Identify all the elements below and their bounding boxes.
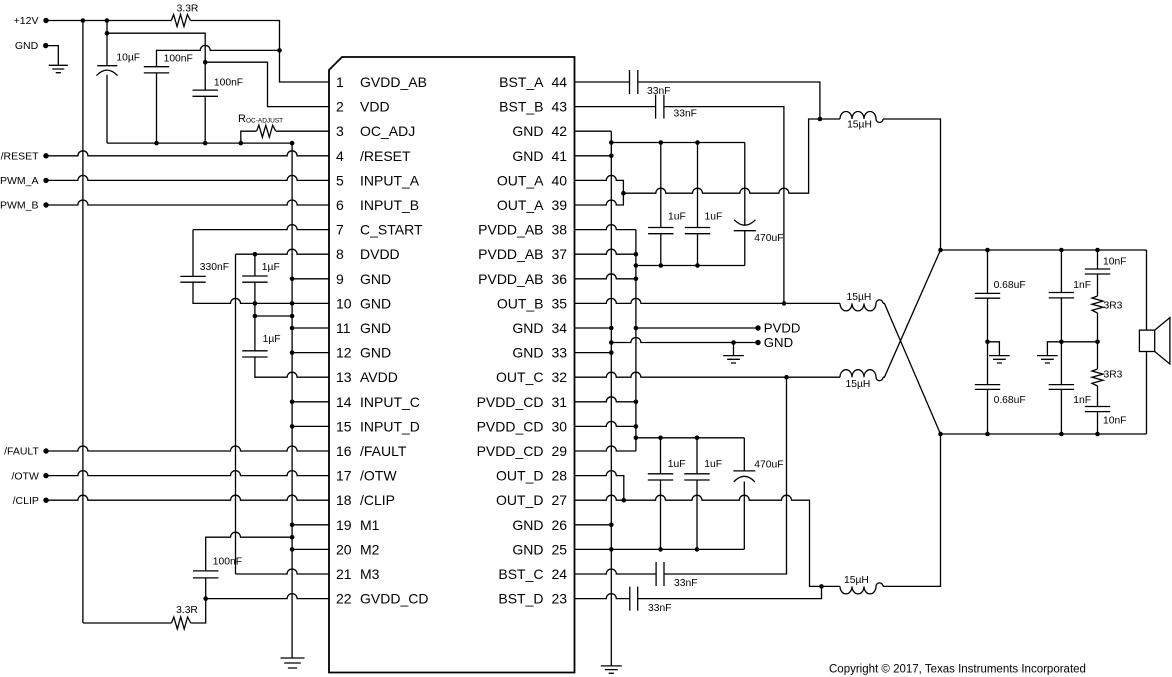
svg-text:ROC-ADJUST: ROC-ADJUST (238, 113, 283, 125)
svg-text:17: 17 (336, 468, 352, 484)
svg-text:2: 2 (336, 99, 344, 115)
resistor R3 3.3R (172, 617, 191, 629)
wire pin 14 INPUT_C (292, 401, 329, 403)
svg-text:34: 34 (552, 320, 568, 336)
wire +12V to R1 and filter caps (46, 20, 171, 22)
wire pin 12 GND (292, 352, 329, 354)
resistor R2 R_OC-ADJUST (241, 131, 257, 143)
ground symbol at C18/C19 mid (988, 342, 1000, 356)
wire pin 42 GND to bus (575, 130, 612, 132)
svg-text:PWM_A: PWM_A (0, 175, 39, 187)
svg-text:22: 22 (336, 591, 352, 607)
wire C6 bottom to pin 13 AVDD (255, 357, 329, 377)
inductor L1 15uH (OUT_A) (820, 118, 840, 120)
wire C5 bottom lead (254, 282, 256, 303)
wire C7 top tie to bus (206, 532, 292, 571)
wire R3 to GVDD_CD node (191, 599, 206, 623)
capacitor C14 1uF (684, 474, 709, 480)
node PVDD terminal (636, 327, 758, 329)
capacitor C8 33nF (BST_A) (630, 70, 638, 94)
svg-text:40: 40 (552, 172, 568, 188)
svg-text:PVDD_CD: PVDD_CD (477, 418, 544, 434)
wire C4 top lead (192, 230, 194, 277)
svg-text:470uF: 470uF (754, 233, 783, 244)
svg-text:35: 35 (552, 295, 568, 311)
svg-text:3R3: 3R3 (1104, 370, 1123, 381)
wire right GND bus (610, 131, 612, 666)
wire pin 21 M3 (236, 569, 330, 574)
svg-text:OUT_C: OUT_C (496, 369, 543, 385)
ground symbol at right bus (601, 666, 622, 673)
svg-text:1nF: 1nF (1073, 280, 1091, 291)
capacitor C18 0.68uF (987, 250, 989, 293)
wire left GND bus (291, 143, 293, 658)
svg-text:PVDD_CD: PVDD_CD (477, 443, 544, 459)
wire C5 top lead (254, 254, 256, 276)
svg-text:13: 13 (336, 369, 352, 385)
svg-text:21: 21 (336, 566, 352, 582)
wire zobel mid link (1061, 341, 1097, 343)
svg-text:9: 9 (336, 271, 344, 287)
ground symbol at left bus (281, 658, 305, 668)
inductor L4 15uH (OUT_D) (822, 585, 841, 587)
svg-text:GND: GND (512, 320, 543, 336)
svg-text:1: 1 (336, 74, 344, 90)
wire pin 43 BST_B to C9 (575, 106, 656, 108)
wire C3 bottom lead (204, 97, 206, 143)
svg-text:10nF: 10nF (1103, 415, 1126, 426)
svg-text:23: 23 (552, 591, 568, 607)
svg-text:29: 29 (552, 443, 568, 459)
wire R3 loop from +12V rail (83, 622, 172, 624)
svg-text:10nF: 10nF (1103, 256, 1126, 267)
svg-text:3: 3 (336, 123, 344, 139)
wire pin 40 OUT_A (575, 175, 624, 193)
wire pin 25 GND rail y549 (575, 548, 745, 550)
svg-text:PVDD_CD: PVDD_CD (477, 394, 544, 410)
svg-text:VDD: VDD (360, 99, 390, 115)
svg-text:32: 32 (552, 369, 568, 385)
svg-text:/CLIP: /CLIP (13, 495, 39, 507)
inductor L2 15uH (OUT_B) (784, 302, 840, 304)
svg-text:/OTW: /OTW (360, 468, 397, 484)
svg-text:3.3R: 3.3R (176, 605, 198, 616)
wire C5/C6 mid tie to bus (254, 303, 256, 350)
node PWM_B terminal (43, 202, 48, 207)
svg-text:GND: GND (512, 148, 543, 164)
svg-text:10µF: 10µF (116, 52, 140, 63)
svg-text:14: 14 (336, 394, 352, 410)
svg-text:15µH: 15µH (845, 379, 870, 390)
wire right PVDD bus (635, 230, 637, 451)
wire /OTW to pin 17 (46, 471, 329, 476)
svg-text:BST_A: BST_A (499, 74, 544, 90)
svg-text:100nF: 100nF (213, 557, 242, 568)
wire pin 34 GND (575, 327, 612, 329)
svg-text:470uF: 470uF (754, 460, 783, 471)
wire DVDD to M3 vertical (235, 254, 237, 574)
capacitor C15 470uF (polarized) (743, 438, 745, 471)
wire PVDD cap rail y437 (636, 437, 744, 439)
svg-text:/RESET: /RESET (1, 151, 40, 163)
svg-text:INPUT_B: INPUT_B (360, 197, 419, 213)
wire GND cap rail y142 (611, 142, 745, 144)
capacitor C20 1nF (1060, 250, 1062, 293)
speaker LS1 (1139, 330, 1154, 351)
svg-text:1uF: 1uF (668, 212, 686, 223)
svg-text:PVDD: PVDD (764, 321, 801, 336)
wire OUT_D line (624, 495, 822, 586)
wire speaker feed bottom (1146, 352, 1148, 435)
wire pin 20 M2 (292, 548, 329, 550)
node PWM_A terminal (43, 178, 48, 183)
capacitor C19 0.68uF (975, 385, 1000, 390)
wire pin 36 PVDD_AB (575, 274, 636, 279)
svg-text:19: 19 (336, 517, 352, 533)
capacitor C1 10uF (polarized) (97, 65, 117, 67)
svg-text:BST_D: BST_D (498, 591, 543, 607)
svg-text:GND: GND (512, 517, 543, 533)
wire pin 19 M1 (292, 524, 329, 526)
svg-text:OUT_D: OUT_D (496, 468, 543, 484)
wire R5 to C23 (1097, 386, 1099, 407)
wire VDD filter branch y33 (107, 33, 205, 90)
node GND terminal (43, 43, 48, 48)
wire C17 to OUT_D node (638, 586, 822, 598)
wire C8 to OUT_A node (638, 82, 820, 119)
svg-text:/CLIP: /CLIP (360, 492, 395, 508)
svg-text:PVDD_AB: PVDD_AB (478, 246, 543, 262)
svg-text:18: 18 (336, 492, 352, 508)
wire pin 33 GND (575, 352, 612, 354)
svg-text:INPUT_C: INPUT_C (360, 394, 420, 410)
wire pin 38 PVDD_AB to bus (575, 225, 636, 230)
svg-text:10: 10 (336, 295, 352, 311)
svg-text:1µF: 1µF (263, 334, 281, 345)
wire pin 35 OUT_B (575, 298, 785, 303)
svg-text:26: 26 (552, 517, 568, 533)
svg-text:41: 41 (552, 148, 568, 164)
svg-text:4: 4 (336, 148, 344, 164)
svg-text:GND: GND (764, 335, 793, 350)
capacitor C6 1uF (AVDD) (242, 351, 267, 357)
wire pin 32 OUT_C (575, 372, 787, 377)
svg-text:42: 42 (552, 123, 568, 139)
svg-text:1uF: 1uF (668, 459, 686, 470)
wire C2 bottom lead (156, 73, 158, 143)
svg-text:33nF: 33nF (648, 603, 671, 614)
svg-text:100nF: 100nF (164, 54, 193, 65)
svg-text:M3: M3 (360, 566, 380, 582)
ground symbol mid right (733, 343, 735, 356)
svg-text:16: 16 (336, 443, 352, 459)
svg-text:GVDD_AB: GVDD_AB (360, 74, 427, 90)
wire pin 23 BST_D to C17 (575, 594, 630, 599)
svg-text:15: 15 (336, 418, 352, 434)
node +12V terminal (43, 18, 48, 23)
capacitor C4 330nF (180, 276, 205, 282)
svg-text:PVDD_AB: PVDD_AB (478, 222, 543, 238)
svg-text:7: 7 (336, 222, 344, 238)
wire 10uF top lead (106, 21, 108, 66)
capacitor C23 10nF (1085, 407, 1110, 412)
capacitor C7 100nF (GVDD_CD) (193, 571, 218, 578)
svg-text:M2: M2 (360, 541, 380, 557)
svg-text:30: 30 (552, 418, 568, 434)
svg-text:INPUT_D: INPUT_D (360, 418, 420, 434)
wire pin 28 OUT_D (575, 471, 624, 501)
wire pin 8 DVDD (236, 249, 330, 254)
capacitor C3 100nF (193, 90, 218, 96)
wire C18-C19 midpoint (987, 298, 989, 384)
svg-text:43: 43 (552, 99, 568, 115)
wire C20-C21 midpoint (1060, 298, 1062, 385)
svg-text:GND: GND (15, 40, 39, 52)
svg-text:44: 44 (552, 74, 568, 90)
svg-text:/FAULT: /FAULT (4, 446, 39, 458)
op-amp U1 class-D amplifier IC body (329, 57, 575, 673)
svg-text:25: 25 (552, 541, 568, 557)
wire speaker feed top (1146, 250, 1148, 330)
wire pin 26 GND (575, 524, 612, 526)
svg-text:GND: GND (360, 295, 391, 311)
node /CLIP terminal (43, 498, 48, 503)
svg-text:OUT_B: OUT_B (497, 295, 544, 311)
wire to pin 2 VDD (205, 62, 329, 106)
svg-text:5: 5 (336, 172, 344, 188)
svg-text:PVDD_AB: PVDD_AB (478, 271, 543, 287)
svg-text:/FAULT: /FAULT (360, 443, 407, 459)
wire +12V left vertical rail (82, 21, 84, 624)
svg-text:OUT_A: OUT_A (497, 172, 544, 188)
capacitor C9 33nF (BST_B) (656, 95, 664, 119)
node /OTW terminal (43, 473, 48, 478)
ground symbol at GND terminal (49, 65, 68, 72)
svg-text:C_START: C_START (360, 222, 423, 238)
svg-text:INPUT_A: INPUT_A (360, 172, 420, 188)
svg-text:12: 12 (336, 345, 352, 361)
svg-text:3.3R: 3.3R (177, 4, 199, 15)
svg-text:/RESET: /RESET (360, 148, 411, 164)
wire pin 24 BST_C to C16 (575, 569, 657, 574)
svg-text:OUT_A: OUT_A (497, 197, 544, 213)
wire GND rail y143 (107, 142, 292, 144)
svg-text:+12V: +12V (14, 15, 39, 27)
capacitor C21 1nF (1049, 385, 1074, 390)
svg-text:8: 8 (336, 246, 344, 262)
wire pin 27 OUT_D (575, 495, 624, 500)
svg-text:GND: GND (360, 271, 391, 287)
svg-text:100nF: 100nF (214, 78, 243, 89)
wire pin 30 PVDD_CD (575, 421, 636, 426)
wire L4 to bottom rail (883, 434, 941, 586)
svg-text:33nF: 33nF (674, 109, 697, 120)
wire PWM_A to pin 5 INPUT_A (46, 175, 329, 180)
node GND terminal right (611, 338, 758, 343)
wire pin 15 INPUT_D (292, 425, 329, 427)
wire bottom output rail (941, 433, 1147, 435)
wire /FAULT to pin 16 (46, 446, 329, 451)
wire pin 44 BST_A to C8 (575, 81, 630, 83)
wire C22 to R4 (1097, 274, 1099, 296)
svg-text:DVDD: DVDD (360, 246, 400, 262)
left bus junction dots (290, 277, 295, 282)
wire OUT_A line (623, 119, 820, 193)
capacitor C11 1uF (685, 228, 710, 234)
svg-text:1nF: 1nF (1073, 395, 1091, 406)
wire pin 31 PVDD_CD (575, 397, 636, 402)
node /FAULT terminal (43, 448, 48, 453)
wire /RESET to pin 4 (46, 151, 329, 156)
svg-text:33: 33 (552, 345, 568, 361)
capacitor C12 470uF (polarized) (744, 143, 746, 225)
svg-text:37: 37 (552, 246, 568, 262)
capacitor C2 100nF (144, 67, 169, 73)
node /RESET terminal (43, 153, 48, 158)
wire R1 to pin 1 GVDD_AB (191, 21, 330, 83)
svg-text:36: 36 (552, 271, 568, 287)
wire R4 to midpoint (1097, 313, 1099, 342)
svg-text:/OTW: /OTW (11, 470, 38, 482)
svg-text:OUT_D: OUT_D (496, 492, 543, 508)
wire PVDD cap rail y265 (636, 265, 745, 267)
wire top output rail (941, 249, 1147, 251)
capacitor C16 33nF (BST_C) (656, 562, 664, 586)
svg-text:15µH: 15µH (844, 575, 869, 586)
svg-text:Copyright © 2017, Texas Instru: Copyright © 2017, Texas Instruments Inco… (829, 664, 1086, 676)
wire L1 to top rail (883, 119, 941, 250)
wire pin 22 GVDD_CD (206, 594, 329, 599)
svg-text:33nF: 33nF (647, 86, 670, 97)
svg-text:15µH: 15µH (846, 292, 871, 303)
svg-text:1µF: 1µF (262, 262, 280, 273)
inductor L3 15uH (OUT_C) (787, 376, 841, 378)
svg-text:AVDD: AVDD (360, 369, 398, 385)
svg-text:M1: M1 (360, 517, 380, 533)
svg-text:0.68uF: 0.68uF (994, 395, 1026, 406)
svg-text:PWM_B: PWM_B (0, 200, 39, 212)
svg-text:31: 31 (552, 394, 568, 410)
wire GND terminal stub (46, 46, 59, 66)
wire C4 bottom to GND row10 (193, 282, 329, 303)
capacitor C10 1uF (648, 228, 673, 234)
svg-text:GND: GND (512, 123, 543, 139)
wire C23 to bottom rail (1097, 412, 1099, 434)
wire C7 bottom lead (205, 578, 207, 599)
resistor R1 3.3R (171, 15, 190, 27)
wire pin 37 PVDD_AB (575, 249, 636, 254)
svg-text:24: 24 (552, 566, 568, 582)
wire L3 diagonal to top rail (883, 250, 941, 377)
capacitor C5 1uF (DVDD) (242, 276, 267, 282)
svg-text:28: 28 (552, 468, 568, 484)
wire pin 39 OUT_A (575, 193, 624, 205)
resistor R5 3R3 (1092, 369, 1103, 386)
svg-text:20: 20 (336, 541, 352, 557)
svg-text:33nF: 33nF (674, 578, 697, 589)
capacitor C13 1uF (648, 474, 673, 480)
wire pin 7 C_START (193, 225, 329, 230)
svg-text:0.68uF: 0.68uF (994, 280, 1026, 291)
svg-text:GND: GND (512, 345, 543, 361)
svg-text:39: 39 (552, 197, 568, 213)
svg-text:BST_C: BST_C (498, 566, 543, 582)
wire C2 top lead to GVDD_AB node (157, 45, 280, 66)
svg-text:GND: GND (360, 345, 391, 361)
wire pin 29 PVDD_CD (575, 446, 636, 451)
wire midpoint to R5 (1097, 342, 1099, 369)
wire /CLIP to pin 18 (46, 495, 329, 500)
svg-text:1uF: 1uF (705, 212, 723, 223)
capacitor C17 33nF (BST_D) (630, 587, 638, 611)
wire pin 9 GND (292, 278, 329, 280)
svg-text:330nF: 330nF (200, 262, 229, 273)
wire pin 11 GND (292, 327, 329, 329)
wire PWM_B to pin 6 INPUT_B (46, 200, 329, 205)
wire C16 to OUT_C node (664, 377, 787, 574)
svg-text:GND: GND (360, 320, 391, 336)
svg-text:BST_B: BST_B (499, 99, 543, 115)
svg-text:27: 27 (552, 492, 568, 508)
wire C1 bottom lead (106, 75, 108, 143)
svg-text:15µH: 15µH (847, 120, 872, 131)
svg-text:38: 38 (552, 222, 568, 238)
svg-text:11: 11 (336, 320, 351, 336)
svg-text:3R3: 3R3 (1104, 301, 1123, 312)
svg-text:1uF: 1uF (704, 459, 722, 470)
svg-text:OC_ADJ: OC_ADJ (360, 123, 415, 139)
wire pin 41 GND (575, 155, 612, 157)
svg-text:GND: GND (512, 541, 543, 557)
svg-text:GVDD_CD: GVDD_CD (360, 591, 428, 607)
svg-text:6: 6 (336, 197, 344, 213)
capacitor C22 10nF (1097, 250, 1099, 269)
resistor R4 3R3 (1092, 296, 1103, 313)
ground symbol at C20/C21 mid (1047, 342, 1061, 356)
wire L2 diagonal to bottom rail (883, 303, 941, 434)
wire C9 to OUT_B node (664, 107, 784, 304)
